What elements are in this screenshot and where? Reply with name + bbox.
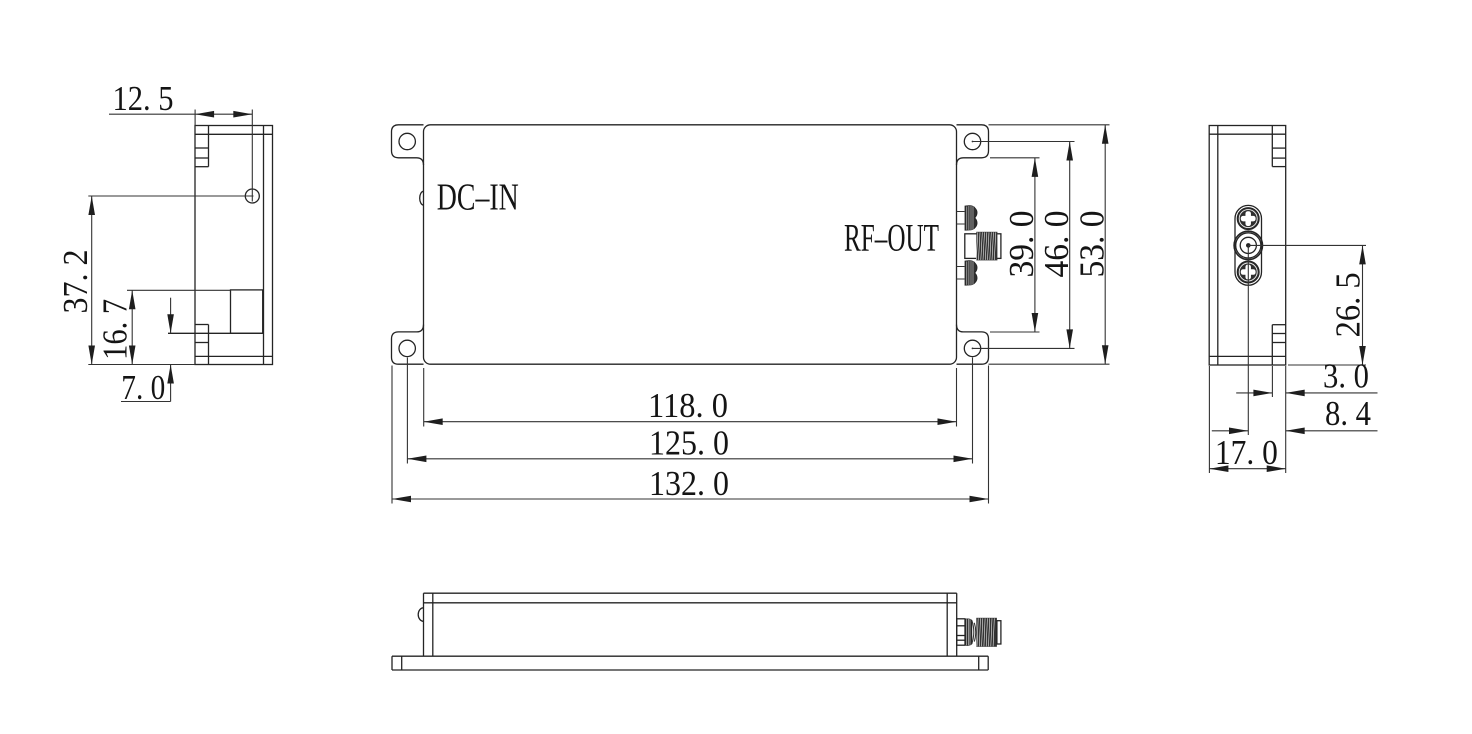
svg-text:3. 0: 3. 0 xyxy=(1323,356,1369,395)
svg-text:8. 4: 8. 4 xyxy=(1325,394,1371,433)
svg-text:125. 0: 125. 0 xyxy=(649,423,729,462)
svg-text:37. 2: 37. 2 xyxy=(56,250,95,314)
svg-text:RF–OUT: RF–OUT xyxy=(844,216,939,260)
svg-text:53. 0: 53. 0 xyxy=(1072,211,1111,278)
svg-text:17. 0: 17. 0 xyxy=(1215,433,1278,472)
svg-text:132. 0: 132. 0 xyxy=(649,464,729,503)
svg-text:26. 5: 26. 5 xyxy=(1329,272,1368,337)
svg-text:DC–IN: DC–IN xyxy=(437,177,519,219)
svg-text:46. 0: 46. 0 xyxy=(1037,211,1076,278)
svg-text:12. 5: 12. 5 xyxy=(113,79,174,118)
svg-text:118. 0: 118. 0 xyxy=(648,386,728,425)
svg-text:16. 7: 16. 7 xyxy=(96,299,135,360)
svg-text:39. 0: 39. 0 xyxy=(1002,211,1041,278)
svg-text:7. 0: 7. 0 xyxy=(121,368,165,407)
